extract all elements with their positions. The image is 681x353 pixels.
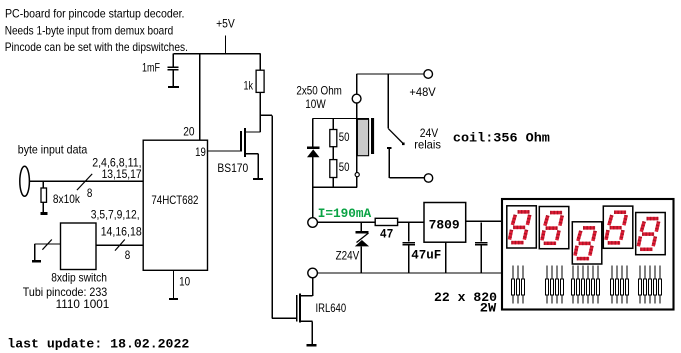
svg-text:8xdip switch: 8xdip switch [51,271,107,285]
bus slash 8 wires dip [115,240,131,262]
regulator U2 7809 [424,203,466,243]
switch contact relay [387,74,424,178]
svg-text:47: 47 [380,227,394,242]
svg-text:+5V: +5V [216,17,235,31]
resistor R1 1k [244,54,265,132]
ground under IC pin10 [169,298,178,300]
resistor group 2: 4x 820 ohm [546,266,564,304]
display panel box [502,199,674,310]
wire long vertical to IRL640 gate [272,115,296,318]
resistor group 3: 6x 820 ohm [572,266,600,304]
note: title text lines [5,7,188,54]
display DIS3 [572,222,602,264]
svg-text:+48V: +48V [409,85,435,99]
svg-text:7809: 7809 [429,217,460,232]
svg-text:IRL640: IRL640 [316,301,347,315]
node B circle [308,268,318,278]
op IC U1 74HCT682 [143,140,207,270]
bus slash left of dip switch [42,240,51,250]
bus slash 8 wires input [77,174,93,200]
svg-text:1k: 1k [244,79,254,93]
wire pin20 to +5V [199,54,201,141]
wire down to node A [312,187,314,218]
capacitor C2 47uF [403,222,442,273]
wire 7809 ground pin [445,242,447,273]
resistor R4 47 [375,218,397,241]
svg-text:Needs 1-byte input from demux: Needs 1-byte input from demux board [5,24,174,38]
diode D1 flyback [307,119,320,188]
wire 7809 output rail [466,220,502,222]
relay K1 coil body [357,118,374,156]
svg-text:coil:356 Ohm: coil:356 Ohm [453,130,550,145]
pin list labels dip bus [91,208,142,239]
svg-text:47uF: 47uF [411,248,441,263]
svg-text:10W: 10W [305,97,326,111]
svg-text:BS170: BS170 [217,161,248,175]
terminal relay coil top [352,94,361,103]
svg-text:8: 8 [87,186,93,200]
resistor R2 50 [330,119,350,160]
resistor group 4: 4x 820 ohm [611,266,629,304]
svg-text:2x50 Ohm: 2x50 Ohm [296,83,342,97]
ground left of dip switch [32,260,41,263]
wire input bus to IC [29,180,143,182]
svg-text:14,16,18: 14,16,18 [101,225,142,239]
svg-text:I=190mA: I=190mA [318,206,372,221]
transistor Q1 BS170 [208,128,261,178]
capacitor C1 1mF [142,54,178,86]
wire dip switch to ground [35,244,61,260]
capacitor C3 output [475,222,488,273]
ground under C1 [168,86,179,88]
display DIS1 [507,206,536,248]
resistor group 5: 5x 820 ohm [639,266,662,304]
svg-text:relais: relais [414,138,441,152]
transistor Q2 IRL640 [297,293,347,344]
resistor R3 50 [330,160,350,188]
svg-text:Pincode can be set with the di: Pincode can be set with the dipswitches. [5,40,188,54]
svg-text:Z24V: Z24V [336,248,360,262]
terminal relay coil bottom [355,173,359,177]
svg-text:1mF: 1mF [142,61,160,75]
svg-text:8: 8 [125,248,131,262]
svg-text:last update: 18.02.2022: last update: 18.02.2022 [7,337,189,352]
svg-text:byte input data: byte input data [18,143,88,157]
wire +5V rail [173,53,260,55]
wire IC pin10 ground [173,270,175,298]
display DIS2 [539,207,569,249]
svg-text:74HCT682: 74HCT682 [151,193,198,207]
wire relay coil vertical [356,74,358,187]
wire node drain to long wire [260,114,272,116]
svg-text:1110 1001: 1110 1001 [56,297,110,311]
svg-text:13,15,17: 13,15,17 [102,167,142,181]
svg-text:19: 19 [195,145,206,159]
note 2x50 Ohm 10W [296,83,342,111]
zener D2 Z24V [336,222,370,273]
ground under RN1 [41,212,48,215]
wire +5V stub [225,36,227,54]
ground under Q2 source [307,344,317,346]
switch S1 dip switch box [51,223,107,285]
node A circle [308,218,318,228]
svg-text:3,5,7,9,12,: 3,5,7,9,12, [91,208,140,222]
wire +48V top rail [356,73,424,75]
wire resistor network bottom [313,186,358,188]
svg-text:8x10k: 8x10k [53,192,81,206]
connector J1 input [20,166,30,196]
display DIS4 [603,206,633,248]
svg-text:10: 10 [179,275,190,289]
wire node B to Q2 drain [300,278,313,296]
wire 24V rail [317,221,424,223]
svg-text:2W: 2W [480,301,496,316]
svg-text:20: 20 [183,125,195,139]
note 22 x 820 2W [434,290,497,316]
pin list labels input bus [92,156,142,182]
wire bottom rail [317,272,502,274]
resistor pack RN1 8x10k [41,181,81,212]
wire dip switch to IC [96,244,143,246]
note 24V relais [414,126,441,152]
svg-text:PC-board for pincode startup d: PC-board for pincode startup decoder. [5,7,185,21]
resistor group 1: 3x 820 ohm [512,266,525,304]
wire resistor network top [313,118,369,120]
terminal +48V [409,70,435,99]
svg-text:50: 50 [339,130,350,144]
terminal relay out [424,174,432,182]
note pincode [23,285,110,311]
svg-text:50: 50 [339,160,350,174]
ground under Q1 source [253,178,263,180]
display DIS5 [636,213,666,255]
